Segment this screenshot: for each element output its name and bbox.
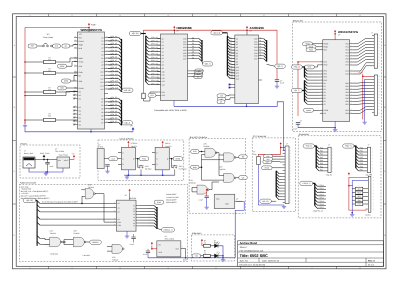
gnd rail clock reset (124, 174, 175, 176)
net label D bus RAM (202, 62, 213, 66)
+5V rail RAM/ROM (144, 30, 278, 96)
section box Address Decode (19, 184, 187, 261)
power flag +5V at CPU (88, 27, 90, 29)
svg-text:A14: A14 (236, 77, 239, 80)
svg-text:File: ben6502.kicad_sch: File: ben6502.kicad_sch (240, 249, 264, 252)
net label RW io (264, 154, 273, 158)
svg-text:Y7: Y7 (133, 225, 135, 228)
svg-text:Control: Control (365, 214, 371, 217)
net label IOSEL (162, 228, 175, 232)
svg-text:1: 1 (30, 266, 31, 269)
U5B output wire (169, 158, 173, 160)
svg-text:PB5: PB5 (360, 162, 363, 165)
net label TX ind (192, 254, 201, 258)
svg-text:A6: A6 (230, 53, 232, 56)
svg-text:Y5: Y5 (133, 219, 135, 222)
power flag gnd right (132, 128, 134, 132)
svg-text:D2: D2 (101, 104, 103, 107)
svg-text:PA4: PA4 (346, 55, 349, 58)
svg-text:A4: A4 (230, 48, 232, 51)
net label CLK2 (154, 200, 164, 204)
svg-text:74HC00: 74HC00 (112, 258, 118, 261)
power flag +5V RAM (174, 29, 176, 31)
gnd wire connector B (365, 79, 372, 120)
decode branch wires (37, 201, 40, 204)
net label RESB out (173, 157, 183, 161)
svg-text:PA7: PA7 (346, 64, 349, 67)
section box Power (20, 145, 80, 178)
svg-text:A12: A12 (162, 77, 165, 80)
svg-text:A12: A12 (230, 71, 233, 74)
svg-text:A2: A2 (118, 211, 120, 214)
svg-text:I/O2: I/O2 (254, 43, 257, 46)
svg-text:PA0: PA0 (346, 43, 349, 46)
svg-text:$6000-$63FF: $6000-$63FF (166, 198, 176, 201)
net label A bus ROM (211, 31, 223, 35)
svg-text:I/O1: I/O1 (254, 40, 257, 43)
U4 left pins (320, 43, 323, 45)
svg-text:CLK2: CLK2 (157, 201, 161, 204)
svg-text:A4: A4 (101, 50, 103, 53)
gnd bus bottom vertical (235, 210, 244, 257)
svg-text:D5: D5 (260, 52, 262, 54)
svg-text:A7: A7 (230, 56, 232, 59)
net label CLK io (263, 160, 272, 164)
ground selector (205, 206, 209, 210)
svg-text:A0: A0 (101, 36, 103, 39)
svg-text:Power: Power (21, 142, 27, 145)
power flag +5V VIA (334, 30, 336, 33)
svg-text:A5: A5 (236, 52, 238, 55)
svg-text:A14: A14 (100, 84, 103, 87)
+5V indicator (201, 239, 203, 242)
connector J3 PORTB (374, 75, 377, 115)
svg-text:PA[0..7]: PA[0..7] (306, 145, 312, 148)
svg-text:Compatible with 1K08, 2008, &: Compatible with 1K08, 2008, & 4008 (154, 109, 187, 112)
svg-text:I/O5: I/O5 (254, 52, 257, 55)
svg-text:D4: D4 (192, 48, 194, 51)
svg-text:D3: D3 (101, 108, 103, 111)
svg-text:PHI2O: PHI2O (79, 87, 85, 90)
svg-text:Y3: Y3 (133, 213, 135, 216)
U3 gnd (246, 104, 248, 107)
wire jack to reg (35, 159, 57, 161)
svg-text:D0: D0 (324, 82, 326, 85)
svg-text:D1: D1 (192, 39, 194, 42)
svg-text:PWR_FLAG: PWR_FLAG (40, 152, 50, 155)
svg-text:Hrd Reset: Hrd Reset (179, 167, 187, 170)
svg-text:A10: A10 (162, 70, 165, 73)
net label D bus ROM (275, 64, 286, 68)
svg-text:CPU_A4: CPU_A4 (151, 49, 158, 52)
svg-text:PB1: PB1 (345, 85, 348, 88)
svg-text:D7: D7 (192, 56, 194, 59)
svg-text:CTRL3: CTRL3 (319, 194, 324, 197)
svg-text:2: 2 (72, 14, 73, 17)
svg-text:A1: A1 (118, 206, 120, 209)
net label PHI2 out (139, 157, 149, 161)
svg-text:RS1: RS1 (324, 73, 327, 76)
svg-text:I/O3: I/O3 (183, 46, 186, 49)
net label A15 in (191, 150, 200, 154)
svg-text:I/O Connector: I/O Connector (253, 135, 267, 138)
svg-text:A7: A7 (101, 60, 103, 63)
wire A13 to decoder A (40, 202, 117, 204)
svg-text:7: 7 (312, 266, 313, 269)
svg-text:U?: U? (250, 29, 252, 32)
U1 address bus ripple (108, 37, 113, 39)
svg-text:A1: A1 (236, 40, 238, 43)
svg-text:4: 4 (168, 266, 169, 269)
net labels RAM ctrl (195, 69, 204, 73)
svg-text:A5: A5 (162, 54, 164, 57)
svg-text:IOSEL[0..7]: IOSEL[0..7] (164, 229, 173, 232)
svg-text:D3: D3 (324, 91, 326, 94)
wire A14 to gate A (40, 238, 50, 239)
svg-text:PA7: PA7 (320, 169, 323, 172)
svg-text:Y4: Y4 (133, 216, 135, 219)
svg-text:I/O4: I/O4 (254, 49, 257, 52)
svg-text:CPU_A14: CPU_A14 (151, 82, 159, 85)
section box Expansion (298, 136, 381, 218)
svg-text:A12: A12 (100, 78, 103, 81)
gnd wire selector (235, 201, 245, 210)
wire A15 to decoder G2A (40, 218, 117, 220)
wires VIA CA to J2 (352, 63, 372, 71)
net label A bus CPU (122, 88, 134, 92)
svg-text:PA6: PA6 (346, 61, 349, 64)
svg-text:I/O5: I/O5 (183, 52, 186, 55)
svg-text:A[0..14]: A[0..14] (213, 32, 220, 35)
svg-text:Bus &/Or Selector: Bus &/Or Selector (190, 136, 208, 139)
control jumper boxes (355, 187, 362, 190)
svg-text:A4: A4 (162, 51, 164, 54)
net label PA expansion (303, 144, 314, 148)
svg-text:A2: A2 (236, 43, 238, 46)
svg-text:A11: A11 (101, 74, 104, 77)
svg-text:0.1uF: 0.1uF (293, 128, 297, 131)
pullup resistor RAM CS (142, 93, 145, 99)
svg-text:CPU_A1: CPU_A1 (151, 39, 158, 42)
ground osc clock (105, 170, 109, 174)
CPU VCC stub (88, 27, 90, 32)
svg-text:CPU_A12: CPU_A12 (151, 76, 159, 79)
svg-text:inverted for SBC: inverted for SBC (166, 196, 179, 199)
+5V wire via CS1 (297, 62, 299, 116)
svg-text:mfg_PA: mfg_PA (326, 174, 333, 177)
svg-text:PA1: PA1 (346, 46, 349, 49)
ground U4 (333, 128, 337, 132)
svg-text:PB0: PB0 (345, 82, 348, 85)
svg-text:7: 7 (312, 14, 313, 17)
svg-text:PB2: PB2 (360, 153, 363, 156)
svg-text:D3: D3 (260, 46, 262, 48)
U9 left pins (115, 202, 117, 204)
svg-text:R/W: R/W (324, 49, 328, 52)
wires VIA PB to J3 (352, 81, 372, 84)
via RS ripple (302, 67, 304, 69)
svg-text:D4: D4 (101, 111, 103, 114)
ground control (350, 213, 354, 217)
svg-text:PA4: PA4 (320, 159, 323, 162)
net label PHI2 via (305, 65, 315, 69)
svg-text:A3: A3 (236, 46, 238, 49)
svg-text:D1: D1 (324, 85, 326, 88)
svg-text:D6: D6 (101, 118, 103, 121)
svg-text:I/O0: I/O0 (254, 38, 257, 41)
svg-text:Barrel_Jack: Barrel_Jack (24, 152, 33, 155)
svg-text:I/O2: I/O2 (183, 43, 186, 46)
U9 right pins (136, 205, 140, 207)
svg-text:A0: A0 (236, 38, 238, 41)
svg-text:C?: C? (300, 120, 302, 123)
cap osc clock (105, 165, 109, 167)
nand U8C (112, 244, 123, 253)
svg-text:CPU_A11: CPU_A11 (151, 72, 158, 75)
svg-text:Y1: Y1 (133, 207, 135, 210)
svg-text:I/O1: I/O1 (183, 40, 186, 43)
section box 65C22 IO (292, 22, 381, 132)
svg-text:1: 1 (30, 14, 31, 17)
svg-text:A8: A8 (101, 64, 103, 67)
svg-text:D7: D7 (101, 121, 103, 124)
svg-text:3k3: 3k3 (48, 114, 51, 117)
gnd wire under CPU (25, 128, 133, 132)
svg-text:A0: A0 (230, 36, 232, 39)
RAM VCC stub (173, 30, 175, 34)
svg-text:CTSPLd: CTSPLd (131, 142, 137, 145)
svg-text:Clock_Mode: Clock_Mode (43, 36, 53, 39)
svg-text:PB2: PB2 (345, 88, 348, 91)
via decoupling cap (296, 123, 300, 125)
svg-text:CTRL7: CTRL7 (319, 206, 324, 209)
svg-text:PB3: PB3 (345, 91, 348, 94)
svg-text:VOUT: VOUT (64, 159, 69, 162)
svg-text:0.1uF: 0.1uF (143, 253, 147, 256)
gnd bus RAM to IO connector (174, 102, 284, 135)
svg-text:Id: 1/1: Id: 1/1 (368, 264, 375, 267)
svg-text:D1: D1 (260, 40, 262, 42)
svg-text:1.9 flat 40k: 1.9 flat 40k (50, 252, 58, 255)
svg-text:RS[0..3]: RS[0..3] (294, 66, 301, 69)
svg-text:8: 8 (360, 266, 361, 269)
svg-text:the 8 256-byte I/O segments fr: the 8 256-byte I/O segments from $200 to… (42, 200, 78, 203)
gnd io from rom (284, 135, 286, 150)
svg-text:A9: A9 (101, 67, 103, 70)
U9 gnd (126, 231, 128, 234)
svg-text:5: 5 (216, 14, 217, 17)
svg-text:AT28C256: AT28C256 (250, 26, 265, 30)
barrel jack J5 (23, 157, 35, 168)
svg-text:D7: D7 (324, 103, 326, 106)
svg-text:A5: A5 (230, 51, 232, 54)
svg-text:RS3: RS3 (324, 79, 327, 82)
connector J1 header (285, 146, 289, 204)
net label RE (58, 64, 67, 68)
svg-text:A13: A13 (236, 75, 239, 78)
svg-text:A9: A9 (230, 62, 232, 65)
svg-text:A14: A14 (230, 76, 233, 79)
svg-text:I/O4: I/O4 (183, 49, 186, 52)
svg-text:I/O7: I/O7 (183, 58, 186, 61)
section box Bus selector (189, 139, 246, 214)
svg-text:A4: A4 (236, 49, 238, 52)
svg-text:0.1uF: 0.1uF (199, 199, 203, 202)
net labels ROM ctrl (217, 94, 226, 98)
svg-text:PB3: PB3 (360, 156, 363, 159)
no connect marks ROM (229, 84, 231, 86)
rom U3 body (235, 35, 259, 104)
svg-text:Size: A4: Size: A4 (240, 259, 249, 262)
svg-text:A7: A7 (236, 58, 238, 61)
svg-text:A13: A13 (230, 73, 233, 76)
svg-text:? and 900: ? and 900 (82, 254, 90, 257)
gnd U5B (162, 170, 164, 175)
+5V IO connector (280, 143, 282, 146)
ground connector rail (362, 121, 366, 125)
svg-text:SYNC: SYNC (79, 60, 84, 63)
header J8 control (368, 176, 371, 212)
title block outline (238, 241, 384, 267)
svg-text:A[0..15]: A[0..15] (262, 200, 269, 203)
ground CPU left (24, 120, 26, 124)
wire A12 to decoder B (40, 207, 117, 209)
svg-text:J?: J? (371, 32, 373, 35)
svg-text:Rev: A: Rev: A (368, 259, 375, 262)
svg-text:Title: 6502 SBC: Title: 6502 SBC (240, 253, 268, 258)
svg-text:CTRL4: CTRL4 (319, 197, 324, 200)
U1 gnd stub (90, 129, 92, 132)
svg-text:PA3: PA3 (320, 156, 323, 159)
svg-text:PA5: PA5 (320, 162, 323, 165)
+5V rail left vertical (24, 27, 26, 124)
io bus ripple (276, 171, 279, 174)
svg-text:CPU_A10: CPU_A10 (151, 69, 159, 72)
svg-text:CTRL2: CTRL2 (319, 190, 324, 193)
net label RAMCS (90, 240, 102, 244)
svg-text:CPU_A5: CPU_A5 (151, 53, 158, 56)
osc out wire (181, 248, 186, 250)
flip-flop U5A (128, 141, 130, 144)
net label NMI (62, 79, 71, 83)
svg-text:CPU_A9: CPU_A9 (151, 66, 158, 69)
net label clock right (62, 44, 70, 48)
net label via addr (291, 65, 302, 69)
LED TX (215, 254, 219, 258)
wires VIA CB to J3 (352, 107, 372, 111)
svg-text:Y6: Y6 (133, 222, 135, 225)
svg-text:CPU_A13: CPU_A13 (151, 79, 159, 82)
svg-text:PA1: PA1 (320, 150, 323, 153)
net label IRQ io (264, 157, 273, 161)
svg-text:PB[0..7]: PB[0..7] (345, 145, 352, 148)
svg-text:$8000-$BFFF: $8000-$BFFF (166, 201, 176, 204)
svg-text:4: 4 (168, 14, 169, 17)
svg-text:CB2: CB2 (345, 112, 348, 115)
svg-text:Address Decode: Address Decode (20, 182, 37, 185)
net label RESB via (303, 42, 313, 46)
svg-text:CTRL6: CTRL6 (319, 203, 324, 206)
svg-text:CPU_A2: CPU_A2 (151, 43, 158, 46)
svg-text:A0: A0 (162, 37, 164, 40)
svg-text:A8: A8 (162, 64, 164, 67)
net label A bus io (260, 199, 272, 203)
svg-text:D[0..7]: D[0..7] (205, 63, 211, 66)
svg-text:J?: J? (370, 173, 372, 176)
svg-text:A7: A7 (162, 60, 164, 63)
svg-text:A2: A2 (101, 43, 103, 46)
svg-text:PB5: PB5 (345, 97, 348, 100)
U1 left pins (74, 37, 78, 39)
svg-text:D6: D6 (260, 54, 262, 56)
U2 left pins (157, 38, 161, 40)
svg-text:A15: A15 (100, 88, 103, 91)
svg-text:A10: A10 (236, 66, 239, 69)
svg-text:JP?: JP? (46, 33, 49, 36)
svg-text:CPU_A3: CPU_A3 (151, 46, 158, 49)
svg-text:PB0: PB0 (360, 146, 363, 149)
svg-text:CPU_A8: CPU_A8 (151, 63, 158, 66)
U4 gnd stub (334, 121, 336, 127)
svg-text:A6: A6 (236, 55, 238, 58)
svg-text:CS1: CS1 (324, 61, 327, 64)
svg-text:Clock & Reset: Clock & Reset (120, 137, 134, 140)
+5V feed wire (258, 154, 280, 156)
svg-text:CS1: CS1 (162, 91, 165, 94)
svg-text:Y0: Y0 (133, 204, 135, 207)
svg-text:G1: G1 (118, 218, 120, 221)
button hard reset (171, 159, 174, 168)
svg-text:A1: A1 (230, 39, 232, 42)
svg-text:Sgl Step: Sgl Step (145, 167, 151, 170)
svg-text:A9: A9 (162, 67, 164, 70)
svg-text:PA6: PA6 (320, 165, 323, 168)
via gnd link wire (298, 127, 335, 129)
wire A11 to decoder C (40, 211, 117, 213)
svg-text:A11: A11 (230, 68, 233, 71)
net label clock left (28, 44, 37, 48)
svg-text:PB1: PB1 (360, 150, 363, 153)
gnd U5A (127, 170, 129, 175)
svg-text:I/O7: I/O7 (254, 58, 257, 61)
svg-text:74HC00: 74HC00 (50, 232, 56, 235)
svg-text:U?: U? (338, 33, 340, 36)
svg-text:A3: A3 (101, 47, 103, 50)
cap osc (146, 251, 150, 253)
wires VIA PA to J2 (352, 39, 372, 44)
svg-text:PB7: PB7 (360, 169, 363, 172)
+5V rail CPU (25, 26, 89, 28)
svg-text:A11: A11 (162, 74, 165, 77)
section box Clock and Reset (98, 140, 184, 180)
U1 right pins (105, 37, 109, 39)
svg-text:A[0..15]: A[0..15] (124, 89, 131, 92)
svg-text:D7: D7 (260, 57, 262, 59)
power flag +5V ROM (246, 29, 248, 31)
svg-text:A11: A11 (236, 69, 239, 72)
svg-text:5: 5 (216, 266, 217, 269)
svg-text:OUT: OUT (175, 248, 179, 251)
regulator U power (57, 157, 70, 168)
svg-text:74HC00: 74HC00 (203, 145, 209, 148)
svg-text:CTRL5: CTRL5 (319, 200, 324, 203)
svg-text:1 MHz: 1 MHz (98, 146, 103, 149)
svg-text:PA0: PA0 (320, 146, 323, 149)
svg-text:J?: J? (368, 144, 370, 147)
decoupling cap ROM (275, 80, 279, 82)
net label CLK out (109, 157, 118, 161)
svg-text:74HC00: 74HC00 (73, 232, 79, 235)
